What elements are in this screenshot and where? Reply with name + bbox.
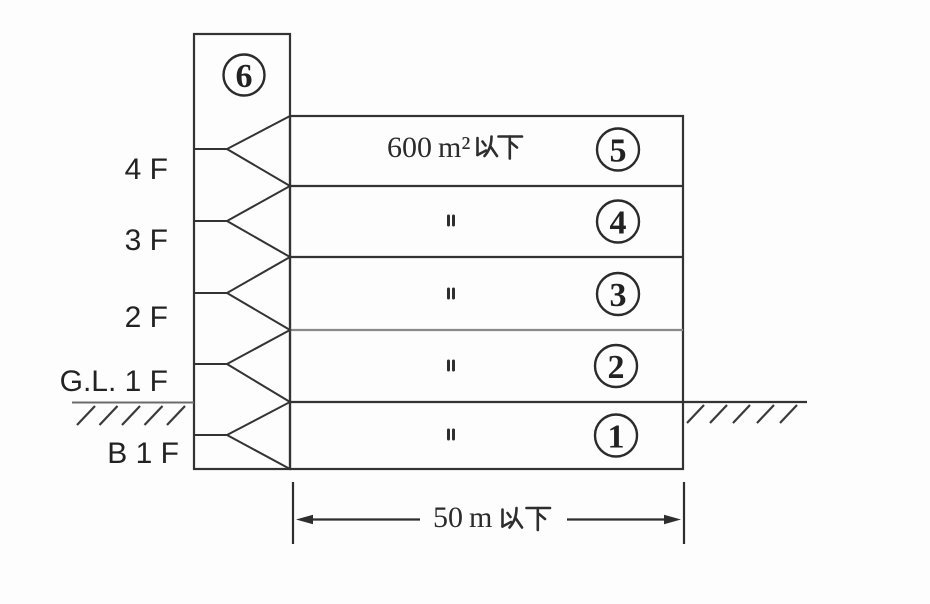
svg-text:2 F: 2 F xyxy=(125,301,168,334)
building floor block outline xyxy=(290,116,683,469)
ground hatching right xyxy=(687,405,797,423)
svg-text:6: 6 xyxy=(236,58,253,95)
svg-text:1: 1 xyxy=(608,419,625,456)
circled 2 xyxy=(595,345,637,387)
ditto mark band 4 xyxy=(449,216,454,225)
circled 6 label on tower xyxy=(224,55,265,96)
svg-text:2: 2 xyxy=(608,349,625,386)
stair landing tick 2F xyxy=(194,292,227,294)
ground line left of tower xyxy=(72,402,194,404)
svg-text:600 m²: 600 m² xyxy=(387,131,470,164)
ground line right of building xyxy=(683,401,807,403)
svg-text:3 F: 3 F xyxy=(125,224,168,257)
svg-text:50 m: 50 m xyxy=(433,501,492,534)
stair zigzag inside tower xyxy=(227,116,290,469)
stair landing tick 3F xyxy=(194,220,227,222)
stair landing tick 1F xyxy=(194,363,227,365)
ground hatching left xyxy=(77,406,185,425)
kanji ika after 50m xyxy=(503,508,523,528)
svg-text:B 1 F: B 1 F xyxy=(107,437,179,470)
svg-text:4: 4 xyxy=(610,205,627,242)
svg-text:4 F: 4 F xyxy=(125,153,168,186)
dimension extension tick left xyxy=(292,482,294,544)
ditto mark band 1 xyxy=(449,430,454,439)
ditto mark band 3 xyxy=(449,289,454,298)
circled 1 xyxy=(595,415,637,457)
circled 4 xyxy=(597,201,639,243)
kanji ika (or less) after 600m2 xyxy=(478,137,498,157)
slab between band2 and band1 (ground level) xyxy=(290,401,683,403)
stair landing tick 4F xyxy=(194,148,227,150)
dimension arrow left xyxy=(310,518,420,520)
dimension arrow right xyxy=(567,518,667,520)
ditto mark band 2 xyxy=(449,361,454,370)
slab between band4 and band3 xyxy=(290,256,683,258)
circled 3 xyxy=(597,273,639,315)
circled 5 xyxy=(597,129,639,171)
stair shaft tower (6) outline xyxy=(194,34,290,469)
dimension extension tick right xyxy=(683,482,685,544)
svg-text:3: 3 xyxy=(610,277,627,314)
floor slab line 4F/5F band top handled by rect; slab between band5 and band4 xyxy=(290,185,683,187)
stair landing tick B1F xyxy=(194,434,227,436)
svg-text:5: 5 xyxy=(610,133,627,170)
svg-text:G.L. 1 F: G.L. 1 F xyxy=(60,365,168,398)
slab between band3 and band2 (lighter) xyxy=(290,329,683,331)
